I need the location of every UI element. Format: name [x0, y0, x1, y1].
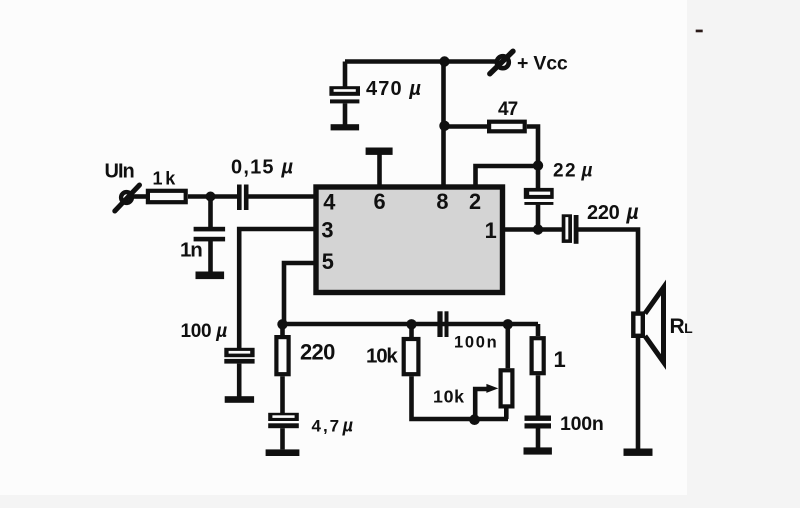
ground (4,7µ): [266, 449, 300, 456]
wire 220 to 4,7µ: [280, 376, 285, 413]
terminal +Vcc: [490, 51, 513, 74]
svg-text:1n: 1n: [180, 239, 202, 262]
wire node to R 220: [280, 324, 285, 336]
wire input node down to C 1n: [208, 197, 213, 228]
svg-text:10k: 10k: [433, 387, 465, 407]
capacitor 220µ: [562, 214, 579, 244]
wire 47 to 22µ node: [527, 127, 538, 166]
speaker RL box: [633, 314, 643, 336]
potentiometer 10k: [501, 370, 513, 406]
svg-text:1: 1: [485, 218, 497, 243]
svg-text:2: 2: [469, 189, 481, 214]
wire 100n to ground: [536, 429, 541, 448]
wire 1 to 100n: [536, 375, 541, 415]
resistor 1: [532, 338, 544, 373]
capacitor 22µ: [524, 188, 554, 205]
wire speaker to ground: [636, 338, 641, 449]
wire 4,7µ to ground: [280, 428, 285, 449]
node 47/pin8 junction: [439, 121, 449, 131]
node input junction: [206, 192, 216, 202]
resistor 220: [276, 337, 288, 374]
wire wiper tail: [475, 389, 487, 419]
svg-text:220: 220: [300, 340, 335, 365]
ground (470µ): [331, 124, 360, 130]
capacitor 100µ: [224, 348, 254, 364]
svg-text:UIn: UIn: [105, 161, 134, 183]
svg-text:5: 5: [322, 249, 334, 274]
wire input terminal to R 1k: [133, 194, 146, 199]
node 47/22µ/pin2 junction: [533, 160, 543, 170]
ground (100µ): [225, 396, 254, 403]
wire IC pin 5 to feedback row: [284, 263, 315, 324]
svg-text:0,15 µ: 0,15 µ: [231, 157, 294, 179]
svg-text:220µ: 220µ: [587, 201, 638, 224]
svg-text:100 µ: 100 µ: [181, 321, 228, 342]
wire pot top to feedback row: [505, 324, 510, 368]
svg-text:4,7µ: 4,7µ: [312, 416, 356, 436]
svg-text:8: 8: [436, 189, 448, 214]
wire 1k to input node: [188, 194, 240, 199]
svg-text:10k: 10k: [366, 345, 398, 368]
wire 470µ to ground: [343, 103, 348, 125]
svg-text:6: 6: [373, 189, 385, 214]
ground (1n): [196, 272, 225, 280]
wire 0,15µ to IC pin 4: [249, 194, 316, 199]
red marker top-right: [696, 30, 703, 33]
ground (speaker): [624, 449, 653, 456]
wire rail down to 470µ: [343, 62, 348, 87]
wire pot bottom to row: [504, 409, 509, 420]
wire 220µ to speaker column: [579, 230, 639, 312]
node wiper junction: [469, 414, 480, 425]
capacitor 100n (output): [525, 416, 552, 429]
speaker RL horn: [645, 288, 664, 363]
svg-text:+ Vcc: + Vcc: [517, 53, 568, 75]
resistor 47: [489, 122, 525, 132]
wire 100µ to ground: [237, 364, 242, 397]
resistor 10k: [404, 339, 419, 374]
wire 10k down to bottom row: [412, 376, 509, 419]
node feedback/pin5 junction: [277, 319, 287, 329]
pin 6 tab bar: [366, 148, 393, 155]
resistor 1k: [148, 191, 186, 202]
capacitor 470µ: [329, 86, 360, 103]
svg-text:47: 47: [498, 99, 518, 120]
input terminal Uln: [115, 185, 140, 211]
svg-text:1: 1: [554, 347, 566, 372]
svg-text:1k: 1k: [153, 169, 179, 189]
wire pin8 node to R 47: [445, 124, 488, 129]
svg-text:470 µ: 470 µ: [366, 78, 422, 100]
svg-text:4: 4: [323, 190, 335, 215]
wire Vcc rail: [345, 59, 497, 64]
node output/22µ junction: [533, 224, 543, 234]
capacitor 100n (feedback): [437, 311, 448, 337]
wire node to R 10k: [409, 324, 414, 337]
capacitor 1n: [194, 227, 226, 242]
wire feedback row to 1-resistor column: [536, 324, 541, 336]
ground (100n): [524, 447, 552, 454]
capacitor 0,15µ: [237, 185, 249, 211]
wire feedback row: [282, 322, 538, 327]
wire IC pin 2 up and right: [476, 166, 539, 185]
svg-text:100n: 100n: [454, 334, 498, 352]
wire IC pin 3 to 100µ branch: [239, 229, 315, 348]
capacitor 4,7µ: [268, 413, 299, 428]
svg-text:3: 3: [321, 218, 333, 243]
node feedback/10k junction: [406, 319, 416, 329]
IC U1: [316, 187, 503, 293]
node feedback/pot junction: [503, 319, 513, 329]
wire IC pin 1 to 220µ: [503, 227, 564, 232]
wiper arrowhead: [486, 384, 498, 393]
wire 22µ to output row: [536, 205, 541, 230]
wire pin 8 to Vcc rail: [441, 62, 446, 186]
wire node to 22µ: [536, 166, 541, 189]
svg-text:100n: 100n: [560, 413, 604, 435]
wire 1n to ground: [208, 241, 213, 272]
pin 6 stub: [377, 154, 382, 185]
svg-text:22µ: 22µ: [553, 161, 594, 182]
node Vcc rail junction: [439, 56, 449, 66]
svg-text:RL: RL: [670, 315, 694, 338]
